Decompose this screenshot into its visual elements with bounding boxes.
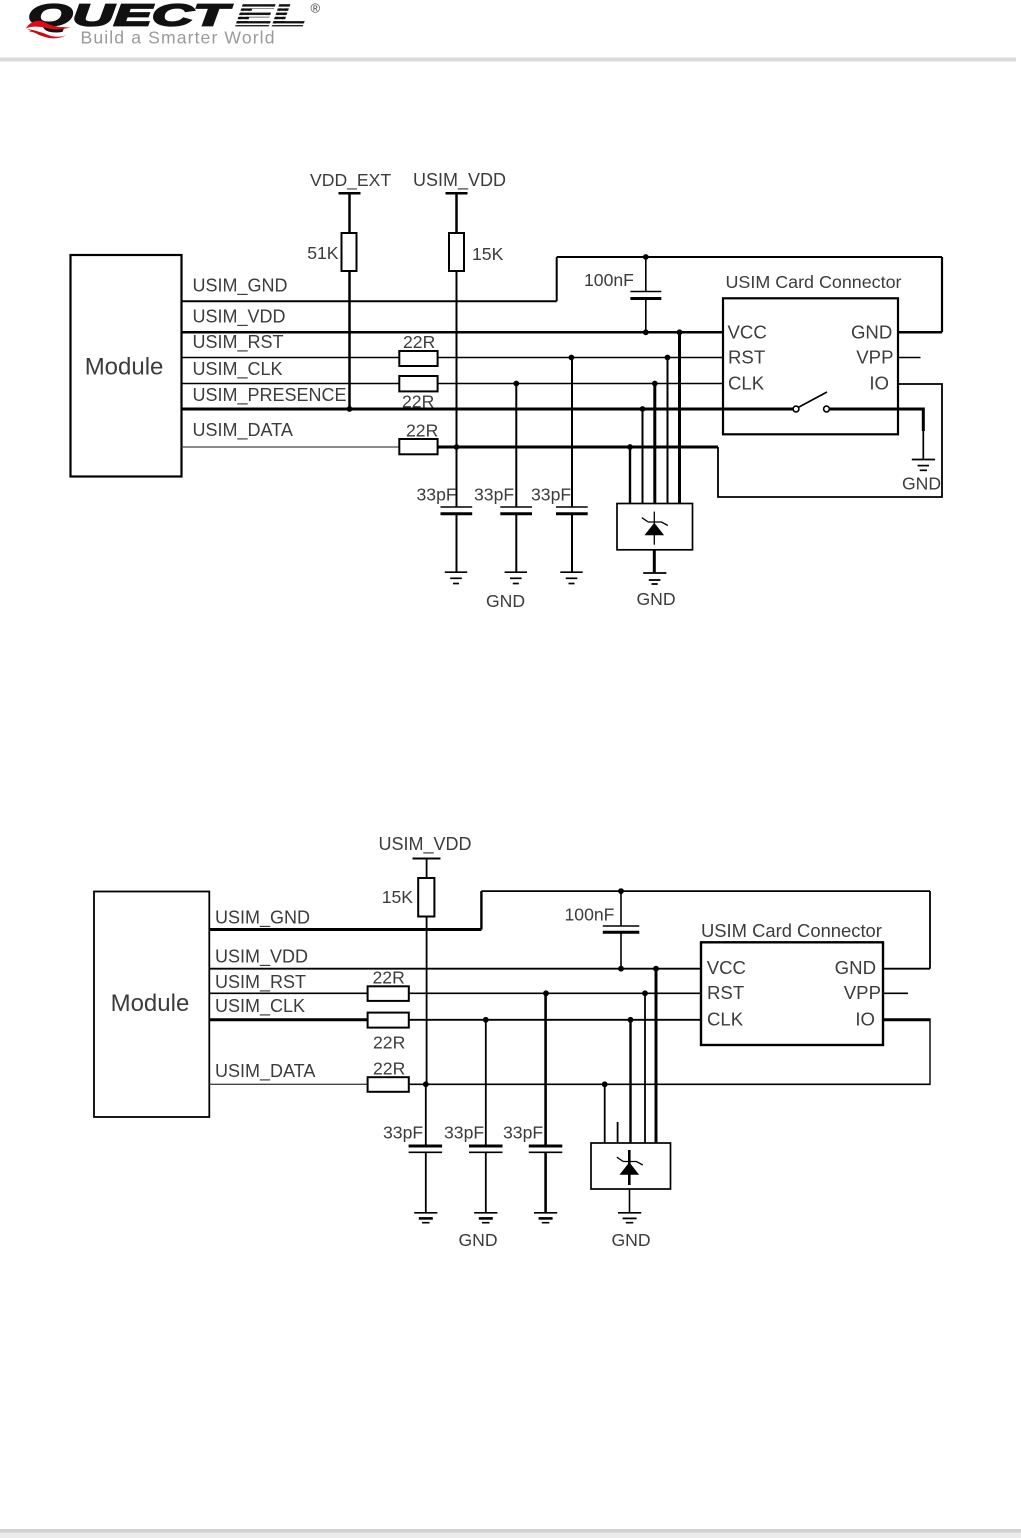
svg-text:VDD_EXT: VDD_EXT — [310, 170, 391, 191]
junction TVS/USIM_CLK — [652, 381, 658, 387]
svg-text:22R: 22R — [373, 968, 405, 988]
capacitor 33pF #2 plates (sch2) — [469, 1145, 503, 1148]
svg-text:100nF: 100nF — [565, 905, 615, 925]
svg-text:USIM_PRESENCE: USIM_PRESENCE — [193, 385, 347, 406]
junction TVS/USIM_VDD — [677, 329, 683, 335]
svg-text:33pF: 33pF — [474, 485, 514, 505]
svg-text:VPP: VPP — [856, 347, 893, 368]
wire RST resistor to connector — [438, 357, 723, 359]
svg-text:USIM_VDD: USIM_VDD — [215, 947, 308, 968]
ground cap2 (sch2) — [474, 1212, 497, 1214]
capacitor 33pF #3 plates (sch2) — [529, 1145, 563, 1148]
junction cap2/USIM_CLK — [513, 381, 519, 387]
wire USIM_GND down to connector GND — [941, 257, 943, 332]
wire USIM_DATA to resistor (sch2) — [209, 1083, 367, 1085]
junction TVS/USIM_CLK (sch2) — [628, 1017, 634, 1023]
resistor 15K (sch2) — [418, 878, 434, 917]
wire TVS pin5 VCC (sch2) — [655, 969, 658, 1143]
svg-text:33pF: 33pF — [444, 1123, 484, 1143]
ground cap1 (sch2) — [414, 1212, 437, 1214]
junction cap2/USIM_CLK (sch2) — [483, 1017, 489, 1023]
svg-text:IO: IO — [869, 373, 889, 394]
wire connector GND pin — [898, 331, 942, 334]
capacitor 33pF #1 plates — [441, 506, 473, 508]
junction TVS/USIM_RST — [665, 355, 671, 361]
svg-text:USIM_RST: USIM_RST — [193, 332, 284, 353]
module block — [71, 255, 182, 477]
logo QUECTEL wordmark — [28, 0, 321, 33]
svg-text:22R: 22R — [373, 1033, 405, 1053]
svg-text:GND: GND — [486, 591, 525, 611]
wire USIM_GND down to connector GND (sch2) — [929, 891, 931, 969]
wire USIM_VDD to R 15K (sch2) — [426, 859, 428, 879]
wire USIM_VDD to VCC (sch2) — [209, 968, 701, 970]
svg-text:GND: GND — [612, 1230, 651, 1250]
ground cap3 (sch2) — [534, 1212, 557, 1214]
capacitor 33pF #2 lead bottom (sch2) — [485, 1153, 487, 1213]
svg-text:CLK: CLK — [707, 1008, 744, 1029]
wire 15K to USIM_DATA net (sch2) — [426, 917, 428, 1085]
junction 100nF/VCC — [643, 329, 649, 335]
wire TVS pin4 RST (sch2) — [644, 993, 646, 1143]
wire USIM_DATA to resistor — [182, 446, 400, 448]
capacitor 100nF lead bottom — [645, 299, 647, 332]
resistor 22R CLK (sch2) — [368, 1013, 409, 1028]
TVS diode array box — [617, 504, 693, 550]
wire TVS pin1 DATA (sch2) — [604, 1084, 606, 1143]
svg-text:USIM_GND: USIM_GND — [215, 908, 310, 929]
wire CLK resistor to connector (sch2) — [409, 1019, 701, 1021]
svg-text:33pF: 33pF — [531, 485, 571, 505]
USIM card connector box (sch2) — [701, 942, 883, 1045]
junction 100nF top — [643, 254, 649, 260]
svg-text:USIM_GND: USIM_GND — [193, 276, 288, 297]
wire USIM_GND horizontal — [182, 300, 557, 302]
header rule — [0, 58, 1016, 62]
ground (cap1) — [445, 571, 467, 573]
svg-text:IO: IO — [855, 1008, 875, 1029]
wire TVS pin2 stub (sch2) — [617, 1122, 619, 1143]
svg-text:USIM_VDD: USIM_VDD — [193, 307, 286, 328]
resistor 22R RST (sch2) — [368, 986, 409, 1001]
switch SIM presence contact right — [824, 406, 830, 412]
capacitor 33pF #3 lead bottom — [571, 514, 573, 572]
svg-text:33pF: 33pF — [417, 485, 457, 505]
junction IO/USIM_DATA — [627, 444, 633, 450]
svg-text:22R: 22R — [373, 1059, 405, 1079]
resistor 22R (CLK) — [399, 376, 437, 391]
module block (sch2) — [94, 892, 209, 1118]
wire USIM_VDD to VCC — [182, 331, 724, 334]
junction TVS/USIM_VDD (sch2) — [653, 966, 659, 972]
capacitor 33pF #2 plates — [500, 506, 532, 508]
wire TVS pin2 (PRESENCE) — [642, 409, 644, 504]
junction 100nF/VCC (sch2) — [618, 966, 624, 972]
wire USIM_GND horizontal (sch2) — [209, 928, 481, 931]
svg-text:USIM_DATA: USIM_DATA — [215, 1061, 315, 1082]
svg-text:USIM_CLK: USIM_CLK — [193, 359, 283, 380]
wire cap2 lead — [515, 384, 517, 508]
svg-text:USIM_RST: USIM_RST — [215, 972, 306, 993]
wire VPP stub — [898, 357, 921, 359]
ground TVS (sch2) — [618, 1212, 641, 1214]
wire USIM_GND riser (sch2) — [480, 891, 482, 929]
footer rule — [0, 1529, 1021, 1533]
junction 51K/USIM_PRESENCE — [347, 406, 353, 412]
logo red swoosh — [26, 21, 71, 39]
junction 100nF top (sch2) — [618, 888, 624, 894]
svg-text:33pF: 33pF — [503, 1123, 543, 1143]
svg-text:RST: RST — [707, 982, 744, 1003]
capacitor 33pF #1 lead bottom (sch2) — [425, 1153, 427, 1213]
capacitor 33pF #1 plates (sch2) — [409, 1145, 443, 1148]
capacitor 100nF lead top (sch2) — [620, 891, 622, 925]
wire USIM_GND top run (sch2) — [481, 890, 930, 892]
wire VPP stub (sch2) — [883, 992, 908, 994]
svg-text:VCC: VCC — [707, 957, 746, 978]
ground (cap2) — [505, 571, 527, 573]
wire IO down to USIM_DATA (sch2) — [929, 1021, 931, 1084]
USIM card connector box — [723, 298, 898, 434]
wire USIM_GND riser — [556, 257, 558, 301]
svg-text:GND: GND — [637, 589, 676, 609]
svg-text:GND: GND — [835, 957, 876, 978]
resistor 15K — [449, 233, 464, 271]
svg-text:USIM_DATA: USIM_DATA — [193, 420, 293, 441]
svg-text:Module: Module — [85, 354, 164, 381]
svg-text:22R: 22R — [406, 421, 438, 441]
capacitor 100nF lead bottom (sch2) — [620, 933, 622, 969]
wire cap2 lead (sch2) — [485, 1020, 487, 1145]
wire USIM_RST to resistor (sch2) — [209, 992, 367, 994]
svg-text:RST: RST — [728, 347, 765, 368]
wire DATA resistor to IO loop — [438, 446, 718, 449]
svg-text:GND: GND — [459, 1230, 498, 1250]
wire cap3 lead (sch2) — [544, 993, 547, 1145]
wire switch to GND — [830, 409, 924, 431]
wire TVS pin3 CLK (sch2) — [629, 1020, 631, 1143]
junction cap3/USIM_RST — [569, 355, 575, 361]
wire cap3 lead — [571, 358, 573, 508]
resistor 22R (DATA) — [399, 439, 437, 454]
svg-text:Build a Smarter World: Build a Smarter World — [81, 28, 275, 48]
svg-text:15K: 15K — [472, 244, 504, 264]
svg-text:GND: GND — [851, 321, 892, 342]
capacitor 100nF plates — [630, 291, 661, 293]
wire TVS to ground — [653, 550, 656, 572]
ground (switch) — [912, 459, 935, 461]
capacitor 33pF #2 lead bottom — [515, 514, 517, 572]
wire IO loop — [718, 384, 942, 497]
wire USIM_PRESENCE to switch — [182, 408, 794, 411]
svg-text:51K: 51K — [307, 243, 339, 263]
TVS diode array box (sch2) — [591, 1143, 671, 1189]
TVS diode symbol (sch2) — [617, 1150, 643, 1185]
wire cap1 lead — [456, 447, 458, 507]
wire TVS pin4 (RST) — [667, 358, 669, 504]
svg-text:VCC: VCC — [728, 321, 767, 342]
wire USIM_RST to resistor — [182, 357, 400, 359]
svg-text:GND: GND — [902, 474, 941, 494]
svg-text:USIM Card Connector: USIM Card Connector — [701, 920, 882, 941]
junction 15K/USIM_DATA (sch2) — [423, 1081, 429, 1087]
resistor 51K — [342, 233, 357, 271]
wire RST resistor to connector (sch2) — [409, 992, 701, 994]
wire USIM_GND top run — [557, 256, 942, 258]
wire 15K to USIM_DATA net — [456, 271, 458, 447]
svg-text:CLK: CLK — [728, 373, 765, 394]
junction cap3/USIM_RST (sch2) — [543, 990, 549, 996]
capacitor 100nF plates (sch2) — [603, 925, 640, 927]
svg-text:33pF: 33pF — [383, 1123, 423, 1143]
switch SIM presence lever — [799, 392, 827, 407]
svg-text:100nF: 100nF — [584, 270, 634, 290]
junction TVS/USIM_PRESENCE — [640, 406, 646, 412]
svg-text:USIM_VDD: USIM_VDD — [413, 170, 506, 191]
junction IO/USIM_DATA (sch2) — [602, 1081, 608, 1087]
wire TVS to ground (sch2) — [629, 1189, 631, 1212]
wire connector GND pin (sch2) — [883, 968, 930, 970]
svg-text:USIM_CLK: USIM_CLK — [215, 996, 305, 1017]
resistor 22R DATA (sch2) — [368, 1077, 409, 1092]
capacitor 33pF #3 plates — [556, 506, 588, 508]
resistor 22R (RST) — [399, 351, 437, 366]
power flag VDD_EXT — [339, 192, 361, 195]
capacitor 33pF #1 lead bottom — [456, 514, 458, 572]
ground (cap3) — [560, 571, 582, 573]
switch SIM presence contact left — [793, 406, 799, 412]
wire cap1 lead (sch2) — [425, 1084, 427, 1145]
wire TVS pin3 (CLK) — [653, 384, 656, 504]
capacitor 33pF #3 lead bottom (sch2) — [544, 1153, 547, 1213]
svg-text:VPP: VPP — [844, 982, 881, 1003]
ground (TVS) — [643, 572, 666, 574]
svg-text:Module: Module — [111, 990, 190, 1017]
svg-text:22R: 22R — [403, 332, 435, 352]
junction TVS/USIM_RST (sch2) — [642, 990, 648, 996]
wire USIM_CLK to resistor (sch2) — [209, 1018, 367, 1021]
power flag USIM_VDD — [446, 192, 468, 195]
capacitor 100nF lead top — [645, 257, 647, 291]
svg-text:®: ® — [311, 1, 321, 16]
wire 51K to USIM_PRESENCE net — [348, 271, 351, 409]
wire DATA resistor to IO (sch2) — [409, 1083, 931, 1085]
svg-text:USIM_VDD: USIM_VDD — [379, 834, 472, 855]
svg-text:USIM Card Connector: USIM Card Connector — [726, 272, 902, 292]
junction 15K/USIM_DATA — [454, 444, 460, 450]
power flag USIM_VDD (sch2) — [413, 858, 441, 860]
wire USIM_CLK to resistor — [182, 383, 400, 385]
wire IO pin (sch2) — [883, 1018, 931, 1021]
wire TVS pin1 (DATA) — [629, 447, 631, 504]
wire USIM_VDD to R 15K — [455, 193, 458, 233]
wire VDD_EXT to R 51K — [348, 193, 351, 233]
wire TVS pin5 (VCC) — [678, 332, 681, 503]
svg-text:15K: 15K — [382, 887, 414, 907]
wire CLK resistor to connector — [438, 383, 723, 385]
TVS diode symbol — [642, 512, 668, 545]
